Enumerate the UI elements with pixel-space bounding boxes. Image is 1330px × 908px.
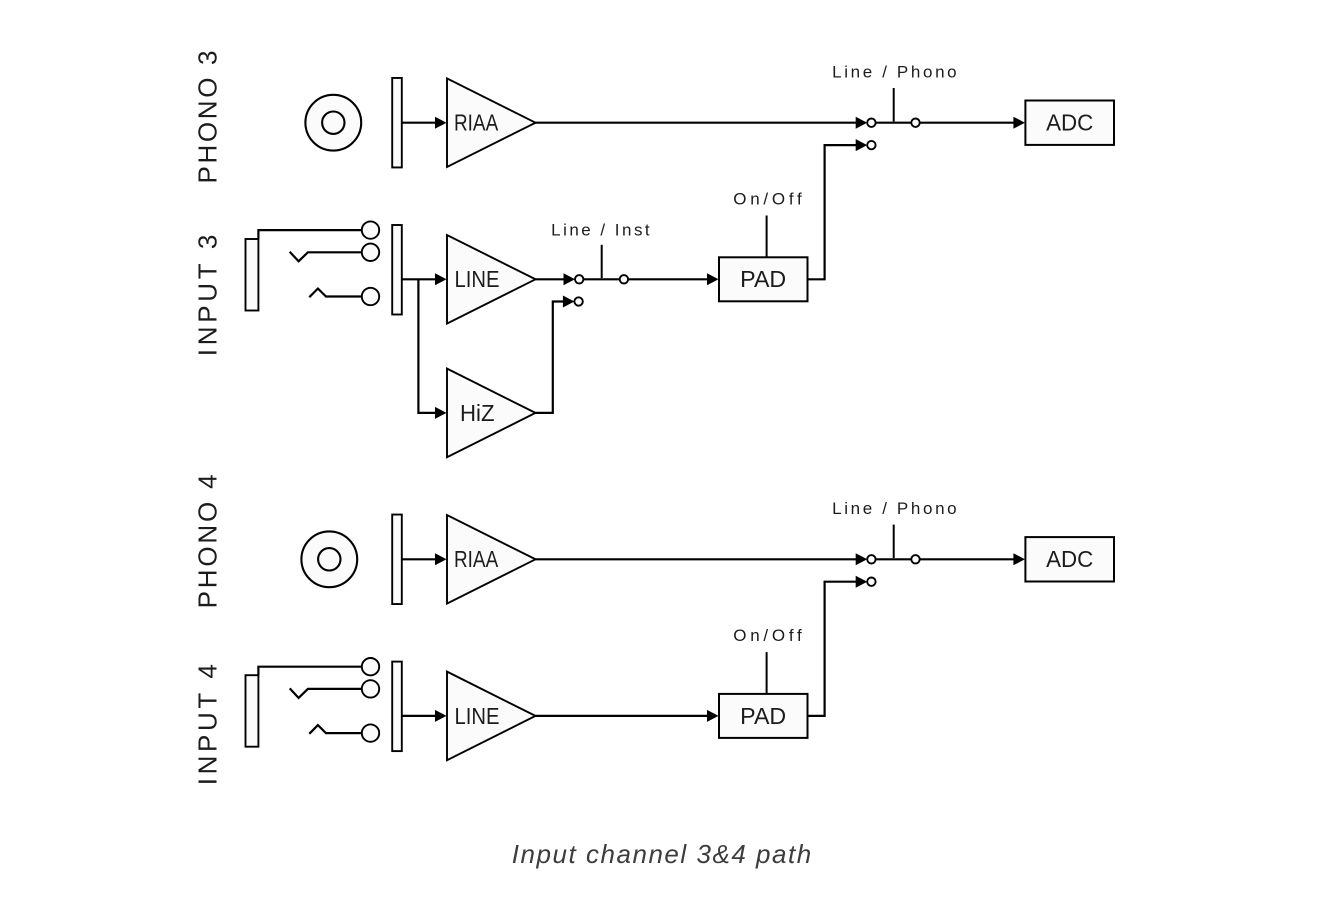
arrow into Line/Phono 3 pole B bbox=[856, 139, 868, 151]
wire RIAA4 output to Line/Phono switch bbox=[536, 558, 857, 560]
svg-text:PHONO 3: PHONO 3 bbox=[192, 51, 222, 184]
switch Line/Inst pole B circle bbox=[574, 297, 582, 305]
switch Line/Phono 3 pole B circle bbox=[867, 141, 875, 149]
jack J3 body bbox=[246, 239, 259, 311]
svg-text:ADC: ADC bbox=[1046, 110, 1093, 136]
switch Line/Inst pole A circle bbox=[575, 275, 583, 283]
jack J4 body bbox=[246, 675, 259, 747]
arrow into Line/Phono 4 pole B bbox=[856, 576, 868, 588]
op-amp RIAA preamp U3 triangle bbox=[447, 78, 536, 167]
jack J3 ring contact circle bbox=[362, 244, 379, 261]
wire Line/Phono 3 to ADC bbox=[920, 122, 1015, 124]
svg-text:PAD: PAD bbox=[740, 703, 786, 729]
panel bar (phono 3 input plate) bbox=[392, 78, 402, 168]
svg-text:HiZ: HiZ bbox=[460, 400, 495, 426]
switch Line/Inst common circle bbox=[620, 275, 628, 283]
wire phono4 bar to RIAA bbox=[402, 558, 436, 560]
wire PAD3 output up to Line/Phono pole B bbox=[808, 145, 857, 279]
jack J3 tip contact circle bbox=[362, 221, 379, 238]
switch Line/Inst closed contact bar bbox=[583, 278, 619, 280]
On/Off control tick 4 bbox=[766, 652, 768, 694]
phono RCA connector P3 inner pin bbox=[322, 112, 344, 134]
wire PAD4 output up to Line/Phono pole B bbox=[808, 582, 857, 716]
svg-text:Line / Inst: Line / Inst bbox=[551, 220, 650, 239]
svg-text:On/Off: On/Off bbox=[733, 189, 802, 208]
arrow into RIAA 3 bbox=[435, 117, 447, 129]
arrow into ADC 3 bbox=[1013, 117, 1025, 129]
switch Line/Phono 4 pole A circle bbox=[867, 555, 875, 563]
jack J3 sleeve contact circle bbox=[362, 288, 379, 305]
switch Line/Phono 3 closed contact bar bbox=[876, 122, 912, 124]
svg-text:On/Off: On/Off bbox=[733, 626, 802, 645]
svg-text:LINE: LINE bbox=[455, 266, 500, 292]
arrow into LINE4 bbox=[435, 710, 447, 722]
On/Off control tick 3 bbox=[766, 216, 768, 258]
wire bar3 to LINE3 amp bbox=[402, 278, 436, 280]
svg-text:RIAA: RIAA bbox=[454, 110, 499, 136]
wire HiZ3 output up to Line/Inst pole B bbox=[536, 302, 564, 413]
arrow into RIAA 4 bbox=[435, 553, 447, 565]
op-amp LINE4 triangle bbox=[447, 672, 536, 761]
switch Line/Phono 4 common circle bbox=[911, 555, 919, 563]
switch Line/Phono 3 common circle bbox=[911, 119, 919, 127]
wire LINE4 to PAD4 bbox=[536, 715, 709, 717]
switch Line/Phono 4 actuator tick bbox=[893, 525, 895, 559]
phono RCA connector P4 inner pin bbox=[318, 548, 340, 570]
wire bar4 to LINE4 amp bbox=[402, 715, 436, 717]
arrow into PAD4 bbox=[707, 710, 719, 722]
switch Line/Phono 3 actuator tick bbox=[893, 88, 895, 122]
jack J4 tip contact circle bbox=[362, 658, 379, 675]
arrow into ADC 4 bbox=[1013, 553, 1025, 565]
svg-text:RIAA: RIAA bbox=[454, 546, 499, 572]
ADC 4 box bbox=[1025, 537, 1114, 581]
op-amp RIAA preamp U4 triangle bbox=[447, 515, 536, 604]
wire junction node down to HiZ3 bbox=[418, 279, 436, 413]
jack J3 sleeve switch contact bbox=[309, 289, 362, 298]
svg-text:ADC: ADC bbox=[1046, 546, 1093, 572]
jack J3 tip wire bbox=[258, 230, 361, 239]
wire phono3 bar to RIAA bbox=[402, 122, 436, 124]
op-amp LINE3 triangle bbox=[447, 235, 536, 324]
wire LINE3 to Line/Inst switch bbox=[536, 278, 565, 280]
svg-text:PAD: PAD bbox=[740, 266, 786, 292]
PAD 3 box bbox=[719, 257, 808, 301]
svg-text:INPUT 3: INPUT 3 bbox=[192, 235, 222, 357]
phono RCA connector P4 outer ring bbox=[301, 531, 357, 587]
arrow into HiZ3 bbox=[435, 407, 447, 419]
jack J4 tip wire bbox=[258, 667, 361, 676]
panel bar (input 3 plate) bbox=[392, 225, 402, 315]
wire RIAA3 output to Line/Phono switch bbox=[536, 122, 857, 124]
ADC 3 box bbox=[1025, 101, 1114, 145]
jack J3 ring switch contact bbox=[290, 252, 362, 261]
svg-text:PHONO 4: PHONO 4 bbox=[192, 474, 222, 608]
wire Line/Phono 4 to ADC bbox=[920, 558, 1015, 560]
arrow into Line/Inst pole A bbox=[564, 273, 576, 285]
svg-text:LINE: LINE bbox=[455, 703, 500, 729]
arrow into Line/Phono switch 4 pole A bbox=[856, 553, 868, 565]
phono RCA connector P3 outer ring bbox=[305, 95, 361, 151]
switch Line/Phono 4 pole B circle bbox=[867, 578, 875, 586]
jack J4 ring switch contact bbox=[290, 688, 362, 698]
jack J4 sleeve switch contact bbox=[309, 725, 362, 734]
PAD 4 box bbox=[719, 694, 808, 738]
jack J4 ring contact circle bbox=[362, 680, 379, 697]
panel bar (phono 4 input plate) bbox=[392, 515, 402, 605]
jack J4 sleeve contact circle bbox=[362, 724, 379, 741]
arrow into Line/Inst pole B bbox=[563, 296, 575, 308]
op-amp HiZ3 triangle bbox=[447, 369, 536, 458]
arrow into Line/Phono switch 3 pole A bbox=[856, 117, 868, 129]
panel bar (input 4 plate) bbox=[392, 662, 402, 752]
svg-text:Input channel 3&4 path: Input channel 3&4 path bbox=[512, 839, 812, 869]
arrow into LINE3 bbox=[435, 273, 447, 285]
switch Line/Phono 4 closed contact bar bbox=[876, 558, 912, 560]
svg-text:INPUT 4: INPUT 4 bbox=[192, 664, 222, 785]
arrow into PAD3 bbox=[707, 273, 719, 285]
switch Line/Phono 3 pole A circle bbox=[867, 119, 875, 127]
wire Line/Inst to PAD3 bbox=[628, 278, 708, 280]
switch Line/Inst actuator tick bbox=[601, 245, 603, 278]
